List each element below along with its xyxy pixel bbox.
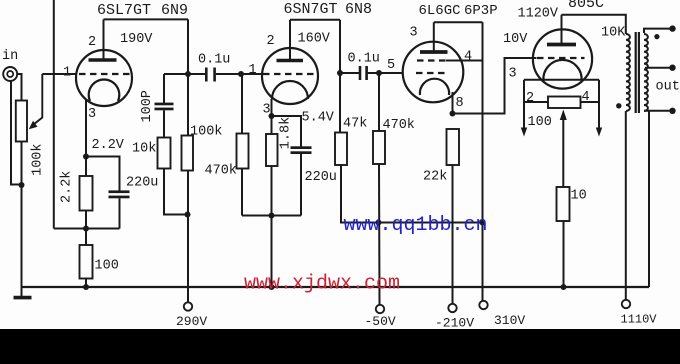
svg-text:160V: 160V bbox=[298, 32, 331, 47]
hum pot wiper arrow up bbox=[562, 117, 564, 187]
pot wiper arrow bbox=[31, 74, 42, 127]
svg-text:2.2V: 2.2V bbox=[92, 138, 125, 153]
svg-text:190V: 190V bbox=[120, 32, 153, 47]
resistor 100k plate load bbox=[182, 136, 194, 171]
svg-text:3: 3 bbox=[88, 107, 96, 122]
wire cathode1 node bbox=[54, 228, 120, 230]
tube V2 6SN7GT envelope bbox=[262, 48, 318, 104]
svg-text:1120V: 1120V bbox=[518, 7, 559, 22]
svg-text:6L6GC: 6L6GC bbox=[419, 3, 461, 19]
heater pot wires bbox=[524, 101, 548, 103]
tube V1 plate bar bbox=[89, 58, 117, 62]
wire 220u1 bottom bbox=[119, 198, 121, 228]
wire pot bottom to ground bbox=[21, 142, 23, 300]
svg-text:10k: 10k bbox=[132, 142, 156, 157]
resistor 470k grid3 bbox=[378, 73, 380, 131]
svg-text:8: 8 bbox=[456, 96, 464, 111]
tube V4 plate bar bbox=[547, 43, 576, 47]
wire cathode3 to grid4 bbox=[453, 58, 537, 114]
transformer T1 primary coil bbox=[626, 34, 630, 111]
svg-text:4: 4 bbox=[464, 50, 472, 65]
tube V4 filament arc bbox=[543, 60, 581, 81]
tube V2 grid dashes bbox=[263, 73, 316, 75]
svg-text:0.1u: 0.1u bbox=[198, 53, 230, 68]
svg-text:22k: 22k bbox=[423, 170, 447, 185]
svg-text:310V: 310V bbox=[494, 313, 525, 328]
svg-text:220u: 220u bbox=[305, 170, 337, 185]
tube V1 grid dashes bbox=[79, 73, 131, 75]
tube V2 cathode lead bbox=[271, 99, 273, 116]
svg-text:out: out bbox=[656, 80, 680, 95]
svg-text:290V: 290V bbox=[176, 314, 207, 329]
svg-text:1110V: 1110V bbox=[621, 313, 658, 327]
secondary tap top bbox=[644, 29, 671, 33]
wire 10k bottom bbox=[164, 169, 188, 215]
transformer T1 secondary coil bbox=[644, 34, 648, 111]
svg-text:470k: 470k bbox=[205, 164, 237, 179]
svg-text:2.2k: 2.2k bbox=[59, 171, 74, 203]
svg-text:805C: 805C bbox=[568, 0, 604, 12]
wire screen to plate line bbox=[446, 60, 483, 62]
capacitor C4 0.1u coupling 2 bbox=[359, 66, 368, 80]
wire 100P top lead bbox=[163, 74, 165, 103]
ground symbol bbox=[14, 296, 32, 300]
wire secondary bottom to bus bbox=[648, 111, 650, 287]
svg-text:47k: 47k bbox=[343, 117, 367, 132]
wire primary bottom to 1110V bbox=[625, 111, 627, 300]
svg-text:10: 10 bbox=[571, 189, 587, 204]
transformer core bbox=[635, 32, 637, 113]
tube V4 805 envelope bbox=[533, 29, 592, 88]
wire grid2 bbox=[241, 73, 263, 75]
wire jack sleeve to pot bottom node bbox=[11, 81, 22, 185]
tube V3 grid dashes bbox=[416, 72, 448, 74]
svg-text:10V: 10V bbox=[503, 32, 528, 47]
hum pot 100 bbox=[548, 97, 581, 109]
svg-text:220u: 220u bbox=[126, 176, 158, 191]
resistor 10k bbox=[158, 138, 171, 169]
wire plate2 top bbox=[290, 19, 340, 21]
svg-text:6N8: 6N8 bbox=[345, 1, 372, 18]
resistor 1.8k bbox=[271, 116, 273, 134]
resistor 470k grid2 bbox=[241, 74, 243, 134]
svg-text:1: 1 bbox=[249, 63, 257, 78]
svg-text:100: 100 bbox=[95, 259, 119, 274]
wire cap2 left bbox=[340, 72, 359, 74]
wire plate3 top bbox=[434, 21, 483, 23]
svg-text:1.8k: 1.8k bbox=[278, 117, 293, 149]
terminal -50V bbox=[376, 305, 384, 313]
tube V1 cathode arc bbox=[89, 80, 120, 101]
wire cap2 right bbox=[368, 72, 379, 74]
svg-text:in: in bbox=[2, 49, 18, 64]
tube V4 grid dashes bbox=[537, 57, 585, 59]
wire grid3 bbox=[379, 72, 403, 74]
wire cathode2 node to bus bbox=[271, 216, 273, 288]
heater box right side with arrow bbox=[598, 80, 600, 130]
terminal 1110V bbox=[622, 300, 630, 308]
svg-text:5: 5 bbox=[387, 58, 395, 73]
terminal 290V bbox=[184, 302, 192, 310]
wire 220u2 bottom bbox=[300, 154, 302, 216]
tube V3 plate lead bbox=[433, 22, 435, 52]
svg-text:100k: 100k bbox=[31, 143, 46, 175]
capacitor C2 0.1u coupling 1 bbox=[205, 68, 216, 82]
cathode2 node wires bbox=[272, 116, 302, 147]
resistor 47k bbox=[335, 133, 347, 166]
tube V4 plate lead bbox=[561, 15, 563, 45]
secondary tap middle bbox=[645, 67, 671, 69]
wire plate node to 100P bbox=[164, 73, 188, 75]
heater box top bbox=[524, 79, 599, 81]
svg-text:6N9: 6N9 bbox=[161, 2, 188, 19]
potentiometer 100k bbox=[16, 101, 27, 142]
terminal -210V bbox=[448, 304, 456, 312]
tube V1 plate lead bbox=[103, 19, 105, 60]
secondary phase dot bbox=[654, 34, 659, 39]
terminal 310V bbox=[479, 301, 487, 309]
primary phase dot bbox=[616, 103, 621, 108]
capacitor 220u second bbox=[291, 146, 312, 154]
svg-text:6P3P: 6P3P bbox=[464, 3, 498, 19]
wire grid1 bbox=[42, 73, 76, 75]
resistor 100 cathode1 bbox=[85, 229, 87, 246]
svg-text:www.qq1bb.cn: www.qq1bb.cn bbox=[344, 214, 488, 237]
svg-text:2: 2 bbox=[267, 34, 275, 49]
svg-text:0.1u: 0.1u bbox=[348, 52, 380, 67]
svg-text:-50V: -50V bbox=[365, 314, 396, 329]
capacitor 100P bbox=[155, 103, 174, 111]
wire cap1 left bbox=[188, 73, 205, 75]
resistor 10 bbox=[557, 187, 570, 221]
tube V3 screen dashes bbox=[417, 59, 446, 61]
black band bbox=[0, 329, 680, 364]
wire 100k bottom to 290V bbox=[187, 171, 189, 303]
node feedback line from top edge bbox=[53, 0, 55, 229]
svg-text:3: 3 bbox=[509, 67, 517, 82]
wire plate2 node vertical bbox=[339, 20, 341, 133]
svg-text:2: 2 bbox=[88, 35, 96, 50]
svg-text:5.4V: 5.4V bbox=[302, 111, 335, 126]
svg-text:6SN7GT: 6SN7GT bbox=[284, 1, 338, 18]
resistor 22k bbox=[447, 129, 460, 165]
wire 10 bottom to bus bbox=[563, 221, 565, 287]
svg-text:3: 3 bbox=[263, 103, 271, 118]
svg-text:10K: 10K bbox=[601, 26, 626, 41]
tube V1 cathode lead bbox=[85, 99, 87, 157]
tube V1 6SL7GT envelope bbox=[76, 50, 132, 106]
svg-text:2: 2 bbox=[526, 91, 534, 106]
svg-text:470k: 470k bbox=[383, 118, 415, 133]
wire jack tip to pot top bbox=[17, 74, 22, 101]
wire plate1 node vertical bbox=[187, 19, 189, 135]
svg-text:100k: 100k bbox=[190, 125, 222, 140]
tube V2 plate lead bbox=[289, 20, 291, 61]
heater box left side with arrow bbox=[523, 80, 525, 130]
capacitor 220u first bbox=[109, 190, 130, 198]
wire plate4 to transformer bbox=[562, 15, 626, 34]
svg-text:100: 100 bbox=[528, 115, 552, 130]
wire 310V vertical bbox=[482, 22, 484, 301]
ground bus bbox=[22, 286, 650, 288]
svg-text:3: 3 bbox=[410, 26, 418, 41]
tube V3 plate bar bbox=[420, 50, 448, 54]
input jack J1 bbox=[3, 67, 17, 81]
resistor 2.2k bbox=[85, 157, 87, 177]
tube V2 cathode arc bbox=[272, 81, 308, 99]
svg-text:www.xjdwx.com: www.xjdwx.com bbox=[244, 273, 400, 296]
tube V2 plate bar bbox=[277, 59, 304, 63]
wire 47k bottom to node line bbox=[341, 165, 483, 223]
cathode1 branch wires bbox=[86, 157, 120, 192]
secondary tap bottom bbox=[644, 110, 671, 112]
tube V3 cathode arc bbox=[420, 79, 449, 95]
tube V3 cathode lead bbox=[452, 92, 454, 114]
cathode2 bottom node bbox=[242, 215, 301, 217]
svg-text:6SL7GT: 6SL7GT bbox=[97, 2, 151, 19]
svg-text:1: 1 bbox=[63, 66, 71, 81]
tube V3 6L6GC envelope bbox=[403, 42, 464, 103]
wire plate1 top bbox=[104, 18, 189, 20]
wire cap1 right bbox=[216, 73, 241, 75]
svg-text:-210V: -210V bbox=[435, 316, 474, 331]
svg-text:100P: 100P bbox=[140, 90, 155, 122]
wire 100P to 10k bbox=[163, 110, 165, 137]
svg-text:4: 4 bbox=[582, 90, 590, 105]
